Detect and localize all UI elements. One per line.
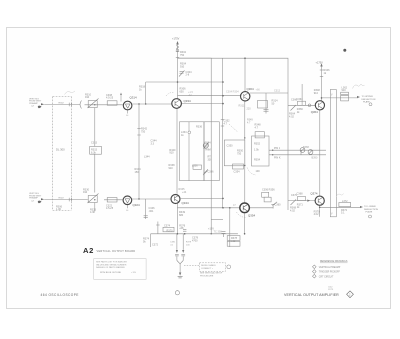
ghost squiggle lower output [336, 194, 344, 197]
wire Q374 base [288, 200, 315, 202]
svg-text:C304 R304: C304 R304 [226, 91, 239, 94]
svg-text:1.06: 1.06 [56, 208, 61, 211]
wire down to ground [179, 264, 181, 273]
svg-text:DEFLECTION: DEFLECTION [362, 99, 376, 101]
wire R374 drop [150, 234, 152, 247]
svg-text:Q314: Q314 [130, 96, 137, 100]
ghost squiggle upper output [353, 84, 365, 89]
svg-text:DEFLECTION: DEFLECTION [364, 209, 378, 211]
transistor glyph Q354 [243, 205, 247, 211]
zone marker circle [175, 291, 179, 295]
capacitor C354 box [233, 164, 244, 169]
wire R318 feed vertical [145, 82, 147, 104]
svg-text:RANGES OF PARTS MARKED: RANGES OF PARTS MARKED [96, 266, 126, 269]
wire lower path to Q324 [104, 199, 123, 201]
wire right mid stub [300, 150, 302, 155]
svg-text:C364: C364 [297, 98, 304, 101]
junction dot pin upper [272, 150, 273, 151]
bias cap right [181, 254, 185, 256]
resistor R302 ticks [176, 52, 179, 58]
junction dot Q374 output [319, 207, 321, 209]
inner network vertical [188, 122, 190, 181]
trimmer arrow lower right [291, 200, 297, 206]
svg-text:+175V: +175V [172, 38, 180, 41]
parts note box [94, 259, 146, 280]
neon lamp B1 [300, 148, 305, 153]
ground arrowhead [179, 273, 181, 276]
selected dashed arc Q354 [237, 212, 246, 218]
legend diamond 3 [312, 274, 316, 278]
svg-text:Q334: Q334 [184, 99, 191, 103]
wire Q354 base branch vertical x229.8 [229, 208, 231, 247]
svg-text:TO LOWER: TO LOWER [364, 206, 376, 208]
wire upper output [322, 97, 358, 99]
wire +175V rail top [177, 44, 179, 99]
wire Q324 to Q344 [132, 198, 171, 200]
stub below lower trimmer [94, 203, 96, 212]
crt plate symbol upper [369, 103, 372, 106]
svg-text:220: 220 [247, 108, 252, 111]
lower output arrowhead [360, 206, 363, 208]
input arrow lower [38, 198, 44, 203]
wire tall box [330, 90, 336, 217]
capacitor C346 lower branch [144, 216, 148, 218]
wire big box top [178, 58, 212, 234]
trimmer arrow C336 [204, 169, 209, 174]
svg-text:4.5-25: 4.5-25 [106, 97, 114, 100]
transistor glyph Q324 [125, 199, 130, 203]
svg-text:4.3k: 4.3k [90, 211, 95, 214]
junction dots [94, 57, 246, 234]
svg-text:+66: +66 [256, 89, 261, 92]
capacitor C358 box [264, 197, 271, 202]
title diamond [347, 291, 354, 298]
ground symbol main [178, 277, 183, 278]
transistor Q304 [241, 92, 250, 101]
svg-text:750: 750 [237, 152, 242, 155]
wire center chain bottom [244, 213, 246, 234]
node circled 1 [227, 265, 231, 269]
wire right +175V rail [321, 66, 323, 101]
wire bias rail [151, 233, 238, 235]
svg-text:Q344: Q344 [182, 201, 189, 205]
svg-text:4.7: 4.7 [255, 126, 259, 129]
registration dot [343, 49, 346, 52]
svg-text:+175V: +175V [316, 62, 324, 65]
resistor R382 box [227, 241, 240, 246]
capacitor C356 box [262, 192, 269, 197]
svg-text:+12: +12 [231, 240, 236, 243]
svg-text:R311: R311 [239, 105, 245, 108]
resistor R315 mid box [90, 146, 102, 154]
capacitor C378 bias [222, 232, 226, 237]
svg-text:C366: C366 [291, 98, 298, 101]
rail arrowhead up [176, 41, 179, 45]
trimmer arrow C360 [272, 202, 277, 206]
bias arrowhead left [176, 250, 178, 253]
resistor network box left [180, 122, 205, 181]
svg-text:-44: -44 [188, 94, 192, 97]
resistor R364 box [298, 101, 306, 105]
svg-text:PIN K: PIN K [274, 157, 281, 160]
transistor Q354 [240, 203, 250, 213]
crt plate symbol lower [369, 215, 372, 218]
wire center chain middle [244, 101, 246, 203]
resistor R348b small box above R352 [255, 132, 264, 138]
wire DL mid vertical x94.8 lower [94, 154, 96, 192]
svg-text:C315: C315 [91, 142, 98, 145]
svg-text:R336: R336 [196, 126, 203, 129]
svg-text:2-8: 2-8 [186, 74, 190, 77]
transistor Q334 [172, 99, 182, 109]
fuse squiggle top rail [176, 46, 179, 49]
svg-text:5.1: 5.1 [341, 212, 345, 215]
wire node to Q354 base [177, 207, 239, 209]
wire x157.9 stub [157, 222, 159, 234]
junction dot chain bottom of box [244, 165, 245, 166]
wire bias drop left [176, 234, 178, 250]
neon lamp B2 [308, 150, 313, 155]
svg-text:C372: C372 [152, 244, 159, 247]
inductor L362 box upper output [341, 92, 349, 101]
svg-text:B388: B388 [303, 146, 309, 149]
svg-text:R379: R379 [186, 242, 192, 244]
svg-text:330: 330 [208, 158, 213, 161]
svg-text:3.3: 3.3 [151, 142, 155, 145]
wire Q354 emitter right [249, 207, 273, 209]
ghost squiggle above DL box [65, 91, 76, 95]
capacitor C314 [264, 110, 269, 112]
junction dot pin lower [272, 154, 273, 155]
svg-text:PLATE: PLATE [363, 101, 370, 104]
selected dashed arc R354 [247, 168, 256, 176]
svg-text:PROCEDURE: PROCEDURE [200, 275, 214, 277]
svg-text:B390: B390 [312, 157, 318, 160]
resistor R314 box [258, 101, 268, 109]
svg-text:VERTICAL OUTPUT AMPLIFIER: VERTICAL OUTPUT AMPLIFIER [284, 293, 339, 297]
thermal network box right [204, 122, 219, 181]
svg-text:DL 300: DL 300 [56, 148, 65, 152]
connector P300 arc [80, 101, 82, 109]
arrow cap C312 near Q314 [120, 95, 122, 102]
transistor glyph Q364 [318, 102, 322, 108]
legend diamond 2 [312, 270, 316, 274]
wire Q364 base [288, 104, 315, 106]
svg-text:+44: +44 [182, 191, 187, 194]
svg-text:R302: R302 [59, 102, 65, 104]
wire Q344 to node at x223 [181, 197, 223, 199]
wire x273 down [272, 205, 274, 209]
transistor Q374 [315, 196, 324, 205]
resistor R376 box bias [163, 227, 174, 232]
svg-text:Q324: Q324 [133, 203, 140, 207]
svg-text:WITH BLUE OUTLINE: WITH BLUE OUTLINE [100, 272, 122, 274]
wire Q364 Q374 link [319, 110, 321, 196]
svg-text:C356 R356: C356 R356 [262, 189, 275, 192]
svg-text:910: 910 [342, 89, 347, 92]
svg-text:C336: C336 [208, 171, 215, 174]
svg-text:C368: C368 [297, 193, 304, 196]
wire right lamp row 2 [288, 154, 326, 156]
svg-text:Q374: Q374 [310, 192, 317, 196]
wire pin upper [269, 149, 288, 151]
wire node to Q304 base [178, 95, 241, 97]
wire x302 into base [301, 103, 303, 106]
svg-text:DECEL SHIELD: DECEL SHIELD [201, 265, 216, 267]
svg-text:PREAMP: PREAMP [29, 197, 38, 200]
decel shield dashed box [200, 263, 226, 272]
svg-text:100: 100 [256, 170, 261, 173]
svg-text:TO UPPER: TO UPPER [362, 96, 374, 98]
wire Q314 to Q334 [132, 103, 171, 105]
svg-text:910: 910 [169, 167, 174, 170]
parts note text [96, 261, 136, 274]
svg-text:C370: C370 [291, 194, 298, 197]
svg-text:TRIGGER PICKOFF: TRIGGER PICKOFF [319, 272, 341, 274]
resistor R346 ticks [320, 70, 323, 77]
junction dot Q364 output [321, 97, 323, 99]
svg-text:R322: R322 [59, 198, 65, 200]
svg-text:12/73: 12/73 [328, 289, 334, 291]
svg-text:+ 5%: + 5% [131, 272, 136, 274]
svg-text:4.5-25: 4.5-25 [106, 207, 114, 210]
wire bias caps stubs [176, 256, 178, 260]
svg-text:910: 910 [83, 191, 88, 194]
resistor R328 ticks on lower wire [69, 198, 71, 202]
trimmer arrow network [203, 171, 207, 176]
capacitor C302 symbol [179, 71, 185, 77]
test point circle inner network [188, 131, 191, 134]
svg-text:SEE PARTS LIST FOR EARLIER: SEE PARTS LIST FOR EARLIER [96, 261, 127, 264]
svg-text:910: 910 [169, 152, 174, 155]
svg-text:CONNECT +: CONNECT + [201, 268, 214, 270]
capacitor C322 trimmer lower [88, 194, 99, 204]
svg-text:750: 750 [180, 54, 185, 57]
svg-text:VERTICAL OUTPUT BOARD: VERTICAL OUTPUT BOARD [97, 250, 136, 253]
svg-text:SEE VERTICAL SETUP: SEE VERTICAL SETUP [200, 272, 223, 275]
svg-text:6.3k: 6.3k [91, 151, 96, 154]
wire lower output [320, 206, 360, 208]
selected dashed arc Q334 [166, 92, 174, 96]
svg-text:464 OSCILLOSCOPE: 464 OSCILLOSCOPE [41, 293, 79, 297]
svg-text:PIN J: PIN J [274, 147, 281, 150]
transistor Q314 [123, 101, 132, 110]
svg-text:L372: L372 [342, 200, 348, 203]
svg-text:C374: C374 [164, 224, 171, 227]
svg-text:4.02: 4.02 [289, 115, 294, 118]
wire Q374 bottom [319, 205, 321, 217]
emitter stub Q314 [127, 110, 129, 114]
wire inner cascode vertical x223 [222, 58, 224, 208]
delay line DL300 dashed box [53, 97, 72, 211]
test point circle on rail [176, 49, 179, 52]
wire bias drop right [182, 234, 184, 250]
resistor R350 box [224, 140, 245, 166]
svg-text:PLATE: PLATE [366, 211, 373, 214]
wire center chain top [244, 58, 246, 91]
wire Q304 collector right [250, 92, 288, 94]
arrow on Q374 base wire [307, 200, 310, 202]
svg-text:R354: R354 [254, 159, 261, 162]
svg-text:910: 910 [85, 96, 90, 99]
svg-text:.001: .001 [149, 210, 154, 213]
svg-text:910: 910 [314, 92, 319, 95]
svg-text:REFERENCE DRAWINGS: REFERENCE DRAWINGS [320, 260, 348, 263]
transistor glyph Q304 [244, 93, 248, 99]
bias cap left [175, 254, 179, 256]
wire x302 feed [301, 84, 303, 103]
transistor glyph Q314 [125, 104, 130, 108]
svg-text:680: 680 [179, 214, 184, 217]
svg-text:4.7: 4.7 [224, 122, 228, 125]
wire DL mid vertical x94.8 upper [94, 108, 96, 147]
resistor R310 box upper [107, 101, 117, 105]
svg-text:R370: R370 [167, 230, 174, 233]
wire rail between Q334 and Q344 [176, 109, 178, 194]
trimmer arrow upper right [291, 105, 297, 111]
svg-text:C360: C360 [275, 204, 282, 207]
svg-text:TC 308: TC 308 [214, 231, 223, 234]
svg-text:A2: A2 [83, 246, 94, 255]
wire Q334 to node at x223 [182, 103, 223, 105]
junction dot chain top of box [244, 137, 245, 138]
transistor Q364 [315, 101, 324, 110]
resistor R368 box [298, 197, 306, 201]
svg-text:4.02: 4.02 [314, 213, 319, 216]
diode thermal symbol [203, 143, 208, 149]
svg-text:L336: L336 [192, 165, 198, 168]
svg-text:VALUES AND SERIAL NUMBER: VALUES AND SERIAL NUMBER [96, 263, 127, 266]
tick on x157.9 [156, 224, 159, 226]
right rail arrowhead [320, 63, 322, 66]
svg-text:Q354: Q354 [248, 214, 255, 218]
bias arrowhead right [182, 250, 184, 253]
svg-text:.02: .02 [205, 144, 209, 147]
wire rail below Q344 [176, 203, 178, 234]
input arrow upper [38, 103, 44, 108]
wire C346 branch below lower path [145, 199, 147, 219]
resistor R380 box [227, 236, 240, 241]
wire feedback top horizontal [146, 81, 223, 83]
resistor R308 ticks on upper wire [69, 103, 71, 107]
svg-text:CRT CIRCUIT: CRT CIRCUIT [319, 276, 334, 278]
label sel dashed arc [229, 124, 238, 132]
wire right lamp row 1 [288, 149, 326, 151]
wire interstage vertical x139 [138, 104, 140, 199]
svg-text:L344: L344 [144, 156, 150, 159]
capacitor C374 bias [183, 230, 186, 232]
transistor glyph Q334 [175, 100, 179, 106]
wire lower signal path left [44, 199, 88, 201]
wire dashed decel link [184, 264, 200, 266]
resistor R352 box [252, 136, 270, 166]
svg-text:Q364: Q364 [311, 110, 318, 114]
svg-text:TRIM: TRIM [205, 149, 211, 152]
svg-text:4700: 4700 [192, 239, 198, 242]
svg-text:C312: C312 [274, 90, 281, 93]
transistor Q344 [171, 195, 180, 204]
transistor glyph Q344 [174, 195, 178, 201]
svg-text:R352: R352 [254, 143, 261, 146]
svg-text:+68: +68 [179, 227, 184, 230]
wire upper signal path to Q314 [85, 104, 123, 106]
capacitor C308 trimmer upper [88, 99, 99, 109]
upper output arrowhead [357, 96, 360, 98]
wire inner box bottom stub [211, 219, 223, 221]
svg-text:C381: C381 [170, 242, 176, 244]
svg-text:150: 150 [135, 171, 140, 174]
svg-text:4.02: 4.02 [290, 209, 295, 212]
svg-text:VERTICAL PREAMP: VERTICAL PREAMP [319, 266, 341, 269]
svg-text:650: 650 [180, 90, 185, 93]
svg-text:PREAMP: PREAMP [29, 102, 38, 105]
svg-text:C350: C350 [227, 145, 234, 148]
emitter stub Q324 [127, 205, 129, 209]
resistor C352 ticks on x222 [221, 120, 224, 127]
resistor R342 ticks on x139 [137, 129, 140, 136]
svg-text:750: 750 [141, 130, 146, 133]
svg-text:1.5k: 1.5k [254, 149, 259, 152]
svg-text:Q304: Q304 [247, 87, 254, 91]
svg-text:910: 910 [180, 65, 185, 68]
capacitor C338 box in network [193, 165, 202, 169]
legend diamond 1 [312, 265, 316, 269]
wire pin lower [269, 154, 288, 156]
wire R314 chain vertical [265, 93, 267, 114]
transistor Q324 [123, 196, 132, 205]
svg-text:C354: C354 [234, 171, 241, 174]
transistor glyph Q374 [318, 198, 322, 204]
wire upper signal path left [44, 103, 80, 105]
wire converge diagonals [177, 261, 183, 264]
inductor L372 box lower output [339, 203, 351, 207]
resistor R330 box lower [107, 198, 117, 202]
test point circle Q364 base [308, 104, 311, 107]
